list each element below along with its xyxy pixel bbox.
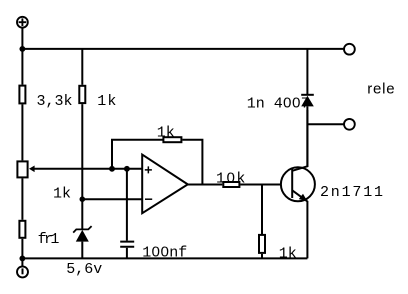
wire potentiometer to fr1 xyxy=(21,178,23,219)
wire R 10k to transistor base xyxy=(240,184,292,186)
terminal - (negative supply) xyxy=(17,266,28,277)
op-amp U1 triangle xyxy=(142,155,188,214)
diode 1n4007 triangle xyxy=(301,96,314,107)
svg-text:3,3k: 3,3k xyxy=(37,93,73,110)
svg-text:rele: rele xyxy=(367,80,395,97)
resistor 1k (left) xyxy=(79,86,85,103)
terminal relay top xyxy=(344,44,355,55)
node junction capacitor / + input xyxy=(124,166,130,172)
wire + input node to capacitor xyxy=(126,169,128,241)
node junction zener/1k xyxy=(80,196,86,202)
transistor 2n1711 circle xyxy=(281,167,315,201)
wire fr1 to bottom rail xyxy=(21,239,23,259)
wire wiper to op-amp + input xyxy=(34,168,142,170)
diode 1n4007 cathode bar xyxy=(301,94,314,96)
zero glyph counter patches (match target font zeros) xyxy=(154,100,297,253)
resistor fr1 xyxy=(19,221,25,238)
node junction top-left xyxy=(19,46,25,52)
resistor 1k (feedback) xyxy=(163,137,181,142)
transistor collector lead xyxy=(292,110,307,171)
svg-text:100nf: 100nf xyxy=(142,245,187,262)
svg-text:1k: 1k xyxy=(279,245,297,262)
wire top rail to R 1k xyxy=(81,49,83,85)
wire relay tap xyxy=(307,123,343,125)
wire R 3,3k to potentiometer xyxy=(21,104,23,160)
wire diode to top rail xyxy=(306,49,308,95)
wire from + terminal to top rail xyxy=(21,28,23,49)
wire diode to relay tap xyxy=(306,106,308,167)
wire R 1k to bottom rail xyxy=(261,254,263,259)
svg-text:1n 4007: 1n 4007 xyxy=(247,96,310,113)
svg-text:5,6v: 5,6v xyxy=(66,261,102,278)
wire node to op-amp - input xyxy=(82,198,142,200)
wire capacitor to bottom rail xyxy=(126,248,128,259)
node junction feedback / + input xyxy=(109,166,115,172)
bottom rail wire xyxy=(22,257,307,259)
svg-text:fr1: fr1 xyxy=(38,231,60,248)
capacitor 100nf plates xyxy=(120,242,134,247)
zener diode 5,6v anode triangle xyxy=(76,230,89,242)
resistor 1k (right) xyxy=(259,235,265,253)
potentiometer body xyxy=(17,161,27,177)
terminal + (positive supply) xyxy=(17,17,28,28)
resistor 3,3k xyxy=(19,86,25,104)
wire feedback left leg xyxy=(112,140,163,169)
wire feedback right leg xyxy=(182,140,202,185)
wire top rail to R 3,3k xyxy=(21,49,23,85)
op-amp - input symbol xyxy=(145,198,152,200)
svg-text:2n1711: 2n1711 xyxy=(320,184,385,201)
transistor base bar xyxy=(291,168,293,198)
transistor emitter arrowhead xyxy=(299,194,308,202)
wire base node to R 1k (right) xyxy=(261,185,263,235)
wire bottom rail to - terminal xyxy=(21,258,23,266)
node junction bottom-left xyxy=(19,255,25,261)
potentiometer wiper arrow xyxy=(29,166,35,173)
resistor 10k xyxy=(223,182,239,187)
top rail wire xyxy=(22,48,343,50)
wire zener to bottom rail xyxy=(81,242,83,259)
wire op-amp output to R 10k xyxy=(188,184,223,186)
terminal relay bottom xyxy=(344,119,355,130)
transistor emitter lead xyxy=(292,190,307,258)
zener diode 5,6v cathode bar xyxy=(73,226,91,233)
svg-text:1k: 1k xyxy=(53,186,71,203)
wire R 1k to zener node xyxy=(81,104,83,229)
op-amp + input symbol xyxy=(145,166,152,173)
svg-text:1k: 1k xyxy=(97,93,117,110)
svg-text:1k: 1k xyxy=(157,125,175,142)
